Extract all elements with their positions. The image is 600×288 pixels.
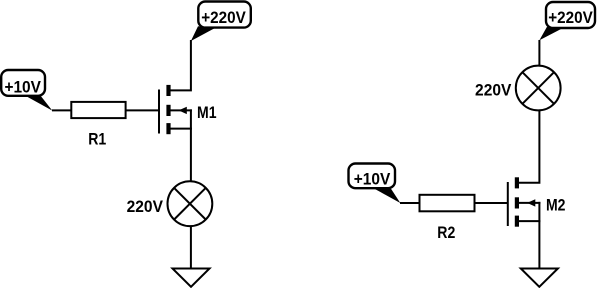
M2 body wire [518, 202, 541, 204]
wire lamp to ground (left) [190, 226, 192, 268]
svg-text:+220V: +220V [548, 9, 593, 27]
lamp left 220V [168, 181, 213, 226]
M2 body arrow [527, 199, 535, 206]
mosfet M1 [159, 85, 192, 134]
net label +10V (right) [349, 164, 401, 204]
ground (left) [173, 269, 210, 287]
svg-text:220V: 220V [475, 82, 511, 100]
svg-text:M2: M2 [546, 197, 566, 215]
net label +220V (left) [191, 2, 251, 42]
svg-text:R2: R2 [437, 224, 455, 242]
wire M1 source to lamp [190, 109, 192, 181]
M2 source wire [518, 220, 541, 222]
wire +220V to M1 drain [170, 40, 191, 90]
svg-text:+220V: +220V [201, 9, 246, 27]
wire +10V to R1 [52, 109, 71, 111]
M2 channel bar (body) [515, 197, 519, 208]
svg-text:+10V: +10V [4, 79, 41, 97]
mosfet M2 [508, 177, 541, 226]
wire +10V to R2 [400, 202, 420, 204]
M2 gate line [507, 182, 509, 226]
net label +10V (left) [1, 70, 52, 111]
svg-text:R1: R1 [88, 131, 106, 149]
svg-text:+10V: +10V [354, 171, 391, 189]
M2 channel bar (source) [515, 216, 519, 227]
wire R1 to M1 gate [126, 109, 159, 111]
wire M2 source to ground [538, 202, 540, 269]
wire lamp to M2 drain [518, 110, 540, 183]
svg-text:220V: 220V [127, 198, 163, 216]
M1 source wire [170, 128, 192, 130]
resistor R1 [71, 102, 125, 118]
resistor R2 [420, 195, 475, 212]
M1 channel bar (source) [166, 123, 170, 134]
M1 gate line [158, 90, 160, 134]
wire +220V to lamp (right) [538, 40, 540, 66]
M2 channel bar (drain) [515, 177, 519, 188]
M1 channel bar (body) [166, 105, 170, 116]
ground (right) [521, 269, 558, 287]
wire R2 to M2 gate [475, 202, 508, 204]
net label +220V (right) [539, 2, 595, 40]
svg-text:M1: M1 [197, 104, 217, 122]
M1 body wire [170, 109, 192, 111]
M1 channel bar (drain) [166, 85, 170, 96]
M1 body arrow [179, 107, 187, 114]
lamp right 220V [516, 66, 561, 111]
